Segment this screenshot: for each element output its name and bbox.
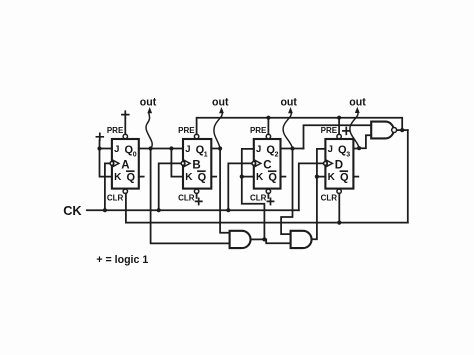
node CLR of D junction	[337, 221, 341, 225]
wire clock of C	[228, 163, 252, 210]
node J of A junction	[97, 146, 101, 150]
wire Q0 down to AND gate G1 lower input	[151, 149, 230, 244]
out arrow squiggle from Q1	[214, 110, 222, 149]
wire Q2 up to NAND gate G3 upper input	[304, 125, 372, 148]
node Q2 junction	[290, 146, 294, 150]
svg-text:PRE: PRE	[178, 126, 195, 135]
out arrow squiggle from Q0	[146, 110, 152, 149]
wire C PRE riser	[267, 118, 269, 135]
svg-text:3: 3	[346, 151, 350, 158]
logic 1 (+) beside D PRE	[343, 128, 350, 135]
wire G3 output	[397, 129, 408, 131]
out arrowhead for Q2	[288, 107, 293, 113]
flip-flop D clock bubble and edge-trigger wedge	[324, 162, 328, 166]
svg-text:CLR: CLR	[178, 194, 195, 203]
logic 1 (+) at CLR of B	[196, 198, 202, 204]
wire clock of B	[159, 163, 181, 210]
wire + down to PRE bubble of A	[124, 118, 126, 134]
flip-flop B CLR bubble	[194, 189, 198, 193]
wire Q3 from D	[353, 148, 359, 150]
wire D PRE riser	[338, 118, 340, 135]
node C PRE junction	[266, 116, 270, 120]
flip-flop B body	[183, 139, 211, 189]
out arrow squiggle from Q2	[283, 110, 292, 149]
flip-flop D CLR bubble	[337, 189, 341, 193]
svg-text:+ = logic 1: + = logic 1	[96, 254, 148, 266]
wire CK line	[87, 209, 299, 211]
flip-flop A CLR bubble	[123, 189, 127, 193]
svg-text:out: out	[140, 97, 157, 109]
out arrow squiggle from Q3	[350, 110, 359, 149]
wire + down to J and K of A	[100, 140, 112, 176]
flip-flop D PRE bubble	[337, 134, 341, 138]
wire G1 output up to J and K of C	[242, 149, 265, 240]
Qbar stub of C	[281, 176, 286, 178]
svg-text:K: K	[185, 172, 193, 183]
wire clock of D (CK right end riser)	[299, 163, 324, 210]
node Q3 junction	[357, 146, 361, 150]
svg-text:K: K	[256, 172, 264, 183]
svg-text:2: 2	[275, 151, 279, 158]
logic 1 (+) at CLR of C	[267, 198, 273, 204]
AND gate G2 (Q0*Q1*Q2)	[291, 231, 312, 248]
flip-flop B PRE bubble	[194, 134, 198, 138]
node D PRE junction	[337, 116, 341, 120]
node CK to clock B	[157, 208, 161, 212]
flip-flop C clock bubble and edge-trigger wedge	[252, 162, 256, 166]
svg-text:K: K	[114, 172, 122, 183]
wire G3 output down right side to CLR line	[407, 130, 409, 223]
svg-text:A: A	[121, 160, 129, 172]
wire G2 output up to J and K of D	[312, 149, 326, 239]
wire PRE net line from B PRE to NAND output	[197, 118, 403, 135]
svg-text:C: C	[263, 160, 271, 172]
svg-text:PRE: PRE	[107, 126, 124, 135]
node Q0 K-branch junction	[169, 146, 173, 150]
svg-text:PRE: PRE	[250, 126, 267, 135]
svg-text:PRE: PRE	[321, 126, 338, 135]
wire CLR of C stub to logic 1	[267, 194, 269, 198]
node CK to clock A	[103, 208, 107, 212]
wire CLR of D down to CLR line	[338, 194, 340, 223]
wire Q2 from C	[281, 148, 304, 150]
node G1 output junction	[262, 237, 266, 241]
svg-text:Q: Q	[340, 172, 349, 184]
flip-flop A PRE bubble	[123, 134, 127, 138]
Qbar stub of D	[353, 176, 358, 178]
out arrowhead for Q3	[355, 107, 360, 113]
wire Q3 to NAND gate G3 lower input	[359, 135, 371, 148]
node Q1 junction	[218, 146, 222, 150]
node G3 output junction	[400, 128, 404, 132]
logic 1 (+) feeding J and K of A	[96, 133, 103, 140]
svg-text:0: 0	[133, 151, 137, 158]
flip-flop C CLR bubble	[266, 189, 270, 193]
svg-text:J: J	[256, 144, 261, 155]
svg-text:1: 1	[204, 151, 208, 158]
svg-text:K: K	[328, 172, 336, 183]
svg-text:Q: Q	[127, 172, 136, 184]
svg-text:J: J	[328, 144, 333, 155]
svg-text:out: out	[280, 97, 297, 109]
NAND G3 output bubble	[392, 128, 397, 133]
svg-text:B: B	[192, 160, 200, 172]
svg-text:J: J	[114, 144, 119, 155]
flip-flop C PRE bubble	[266, 134, 270, 138]
NAND gate G3 (Q2*Q3)	[371, 122, 393, 139]
wire Q0 down to K of B	[171, 149, 183, 177]
svg-text:Q: Q	[268, 172, 277, 184]
node K of D junction	[315, 175, 319, 179]
svg-text:CK: CK	[63, 203, 82, 218]
wire G1 output to AND gate G2 lower input	[264, 239, 290, 243]
flip-flop A body	[112, 139, 139, 189]
svg-text:out: out	[349, 97, 366, 109]
wire Q1 down to AND gate G1 upper input	[220, 149, 230, 233]
svg-text:Q: Q	[198, 172, 207, 184]
wire Q1 from B	[211, 148, 220, 150]
flip-flop B clock bubble and edge-trigger wedge	[181, 162, 185, 166]
flip-flop A clock bubble and edge-trigger wedge	[110, 162, 114, 166]
svg-text:out: out	[212, 97, 229, 109]
wire CLR of B stub to logic 1	[196, 194, 198, 198]
node CK to clock C	[226, 208, 230, 212]
svg-text:J: J	[185, 144, 190, 155]
svg-text:D: D	[335, 160, 343, 172]
wire G1 output	[251, 238, 265, 240]
wire CLR line to CLR of A	[126, 194, 408, 223]
AND gate G1 (Q0*Q1)	[230, 231, 251, 248]
svg-text:CLR: CLR	[107, 194, 124, 203]
Qbar stub of B	[211, 176, 216, 178]
flip-flop C body	[254, 139, 281, 189]
Qbar stub of A	[139, 176, 144, 178]
logic 1 (+) above PRE of A	[122, 111, 129, 118]
wire clock of A	[105, 163, 110, 210]
svg-text:CLR: CLR	[250, 194, 267, 203]
node Q0 out-arrow junction	[149, 146, 153, 150]
out arrowhead for Q0	[147, 107, 152, 113]
out arrowhead for Q1	[219, 107, 224, 113]
wire Q2 down to AND gate G2 upper input	[281, 149, 292, 235]
node K of C junction	[240, 175, 244, 179]
wire Q0 from A to J of B	[139, 148, 183, 150]
flip-flop D body	[325, 139, 353, 189]
svg-text:CLR: CLR	[321, 194, 338, 203]
